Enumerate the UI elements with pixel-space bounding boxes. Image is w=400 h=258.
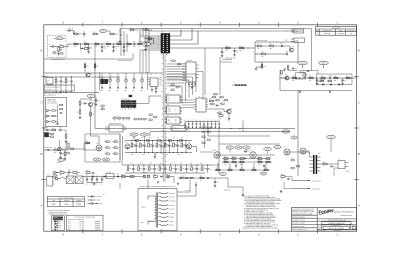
svg-text:22U: 22U: [133, 46, 135, 48]
input box interior parts: [53, 52, 56, 53]
ground C8: [234, 54, 236, 55]
wire C1: [67, 30, 70, 32]
svg-text:R88: R88: [291, 158, 293, 160]
svg-text:ASSY 0077076000: ASSY 0077076000: [47, 102, 57, 104]
component R60: [170, 167, 172, 171]
svg-text:R17: R17: [257, 43, 260, 45]
oval stub wires: [54, 37, 56, 39]
resistor R3: [60, 46, 64, 48]
component C39: [175, 165, 177, 168]
svg-text:PHONES: PHONES: [321, 63, 327, 65]
vertical ribbon bus: [162, 55, 164, 182]
svg-text:MAIN SPK OUT: MAIN SPK OUT: [312, 180, 321, 182]
node C: [113, 43, 114, 44]
component C35: [132, 165, 134, 168]
capacitor C29: [199, 122, 201, 124]
svg-text:LINE: LINE: [52, 200, 55, 202]
svg-text:JD: JD: [350, 33, 352, 35]
ps rail: [83, 176, 135, 178]
svg-text:RETURN: RETURN: [64, 204, 69, 206]
resistor R35: [90, 112, 92, 116]
svg-text:AC LINE WIRING TABLE: AC LINE WIRING TABLE: [58, 198, 73, 200]
node B: [101, 43, 102, 44]
svg-text:U6: U6: [167, 115, 169, 117]
svg-text:D3: D3: [281, 43, 283, 45]
svg-text:R25: R25: [292, 75, 295, 77]
resistor R29: [346, 77, 350, 79]
svg-text:R59: R59: [161, 168, 164, 170]
svg-text:R75: R75: [258, 156, 261, 158]
pa wires: [220, 154, 250, 156]
cluster parts right of pot: [66, 144, 69, 146]
svg-text:OUT: OUT: [318, 153, 321, 155]
diode D13: [104, 176, 106, 178]
svg-text:SCHEMATIC SUBJECT TO CHANGE WI: SCHEMATIC SUBJECT TO CHANGE WITHOUT NOTI…: [242, 228, 278, 230]
capacitor C28: [195, 122, 197, 124]
capacitor C8: [234, 48, 236, 51]
capacitor C4: [113, 44, 115, 47]
wire P1 right side: [170, 35, 181, 37]
T2 primary stubs: [310, 156, 314, 158]
transformer T1 primary leads: [148, 196, 155, 200]
pot MID: [125, 79, 128, 82]
wire vertical riser left of P1: [142, 29, 144, 37]
component R58: [148, 167, 150, 171]
panel gnd: [57, 122, 59, 123]
transformer T1 secondary taps: [159, 192, 177, 226]
part C42: [114, 147, 117, 149]
pot BASS: [117, 79, 120, 82]
node D: [123, 43, 124, 44]
panel jack 2: [46, 115, 48, 117]
loop resistors: [320, 80, 324, 82]
inductor FB1 dark block: [101, 79, 104, 84]
aux input jack J3: [44, 149, 48, 151]
svg-text:470: 470: [258, 164, 260, 166]
resistor R52: [148, 143, 150, 147]
mute oval: [99, 30, 106, 33]
ext spkr arrow: [292, 188, 310, 190]
thermistor RT1: [166, 176, 170, 178]
op-amp U7: [196, 98, 206, 112]
svg-text:R18: R18: [269, 43, 272, 45]
wire switch area vertical 1: [204, 48, 206, 95]
svg-text:R16: R16: [239, 45, 242, 47]
svg-text:REV A SEE NOTE 13: REV A SEE NOTE 13: [44, 95, 56, 97]
power switch S1: [60, 177, 64, 179]
svg-text:AGND: AGND: [168, 111, 171, 113]
ps chain to xfmr: [135, 176, 143, 178]
wire right bus drop: [311, 29, 313, 71]
terminal strip stubs: [46, 91, 48, 93]
svg-text:C: C: [40, 100, 42, 104]
gnd spkr: [280, 190, 282, 191]
svg-text:REV: REV: [353, 225, 355, 227]
resistor R64: [86, 142, 90, 144]
svg-text:18V BRN: 18V BRN: [169, 213, 174, 215]
svg-text:D1: D1: [80, 51, 82, 53]
ground C4: [113, 50, 115, 51]
resistor R5: [85, 43, 89, 45]
wire bus bends into dsp: [167, 74, 196, 92]
svg-text:Scottsdale, AZ USA: Scottsdale, AZ USA: [340, 215, 352, 217]
svg-text:DATE: DATE: [339, 30, 342, 32]
wire v5 to T2: [290, 152, 310, 157]
V2A enclosure box: [85, 134, 120, 162]
svg-text:J3 FOOTSW: J3 FOOTSW: [44, 147, 52, 149]
svg-text:U7: U7: [199, 96, 201, 98]
pa left vertical: [204, 133, 206, 148]
chain2 left entry: [122, 160, 125, 165]
svg-text:10K: 10K: [269, 48, 271, 50]
node Q2: [299, 77, 300, 78]
resistor R6: [95, 43, 99, 45]
svg-text:47U: 47U: [96, 183, 98, 185]
resistor R8: [117, 43, 121, 45]
resistor R95: [52, 129, 56, 131]
regulator U8: [106, 174, 114, 179]
capacitor C32: [156, 143, 158, 147]
node H: [55, 76, 56, 77]
resistor R27: [321, 77, 325, 79]
capacitor C5: [133, 43, 135, 45]
vertical chain x95b: [94, 62, 96, 70]
svg-text:R80: R80: [323, 161, 326, 163]
panel parts: [52, 110, 55, 111]
inlet pins: [53, 177, 55, 179]
svg-text:R7: R7: [106, 41, 108, 43]
component R56: [127, 167, 129, 171]
tap down from node A: [80, 44, 82, 49]
wire ovals bottom: [288, 70, 297, 72]
pot VOL: [101, 79, 104, 82]
svg-text:POWER AMP IN (C): POWER AMP IN (C): [225, 58, 236, 60]
svg-text:SDA: SDA: [183, 75, 186, 77]
transistor Q5: [86, 73, 90, 77]
transistor Q2: [285, 76, 289, 80]
svg-text:ANY REPRODUCTION IS PROHIBITED: ANY REPRODUCTION IS PROHIBITED.: [292, 214, 313, 216]
svg-text:C42: C42: [114, 146, 116, 148]
capacitor C32: [211, 122, 213, 124]
resistor R28: [334, 77, 338, 79]
bridge rectifier D11: [76, 176, 84, 184]
pilot lamp DS1: [143, 175, 146, 178]
main spkr arrow: [292, 180, 310, 182]
svg-text:C41: C41: [106, 146, 108, 148]
svg-text:STBY: STBY: [284, 131, 288, 133]
svg-text:R76: R76: [258, 159, 261, 161]
pa dots: [230, 128, 231, 129]
IC U2 codec: [186, 62, 196, 82]
capacitor C34: [177, 141, 179, 145]
ps verticals: [147, 180, 149, 189]
svg-text:SCALE NONE: SCALE NONE: [318, 230, 326, 232]
svg-text:47P: 47P: [71, 28, 73, 30]
svg-text:10N: 10N: [236, 51, 238, 53]
ground chain: [154, 156, 156, 157]
sheet border: [44, 25, 357, 231]
right upper parts: [130, 29, 134, 31]
svg-text:68K: 68K: [74, 46, 76, 48]
wire to switch circuit: [198, 47, 255, 49]
svg-text:R19: R19: [261, 51, 264, 53]
svg-text:LINE IN / FOOT: LINE IN / FOOT: [47, 99, 56, 101]
spkr out parts: [281, 176, 285, 178]
svg-text:IN: IN: [47, 82, 48, 84]
svg-text:15-SEP-06: 15-SEP-06: [337, 33, 344, 35]
svg-text:DESCRIPTION: DESCRIPTION: [323, 30, 332, 32]
svg-text:DRAWN B. JOHNSON: DRAWN B. JOHNSON: [292, 216, 305, 218]
tube V2A: [96, 145, 102, 151]
part C41: [106, 147, 109, 149]
svg-text:U3: U3: [151, 74, 153, 76]
tube V1B: [186, 144, 191, 149]
svg-text:C15: C15: [62, 81, 65, 83]
svg-text:R21: R21: [284, 68, 287, 70]
diode D1: [81, 48, 83, 50]
svg-text:MUTE SW: MUTE SW: [173, 127, 179, 129]
svg-text:DVM INPUT Z 10 MEG OHM: DVM INPUT Z 10 MEG OHM: [68, 219, 84, 221]
ground U1A: [146, 44, 148, 46]
preamp ovals: [130, 133, 138, 136]
part R65: [106, 141, 109, 143]
svg-text:CHASSIS HARNESS CN3: CHASSIS HARNESS CN3: [45, 86, 60, 88]
svg-text:A: A: [358, 204, 360, 208]
capacitor C34: [218, 122, 220, 124]
svg-text:PEDAL: PEDAL: [57, 162, 61, 164]
wire gain pot: [90, 98, 92, 101]
component R57: [138, 167, 140, 171]
ground return: [299, 91, 301, 92]
resistor R19: [262, 53, 266, 55]
svg-text:NEUTRAL: NEUTRAL: [64, 200, 70, 202]
svg-text:R69: R69: [60, 170, 63, 172]
wire u7 to q4: [208, 109, 228, 112]
svg-text:330V RED: 330V RED: [169, 193, 175, 195]
right nested loop: [317, 74, 353, 85]
resistor R30: [55, 77, 57, 79]
svg-text:RES: RES: [59, 221, 62, 223]
svg-text:Q2: Q2: [285, 74, 287, 76]
svg-text:VREF: VREF: [276, 147, 280, 149]
revision table: [316, 27, 357, 36]
svg-text:V1A: V1A: [125, 142, 128, 144]
svg-text:TUBE: TUBE: [59, 225, 62, 227]
bracket bottom wire: [44, 58, 133, 60]
svg-text:C20: C20: [218, 105, 221, 107]
panel parts right: [60, 104, 63, 105]
svg-text:SWITCH PANEL: SWITCH PANEL: [47, 101, 56, 103]
svg-text:R35: R35: [92, 114, 95, 116]
terminal strip box: [44, 85, 74, 91]
pa left wire: [200, 151, 213, 153]
svg-text:V1B: V1B: [188, 142, 191, 144]
capacitor C25: [184, 122, 186, 124]
svg-text:GND: GND: [53, 229, 56, 231]
bridge rectifier D10: [67, 176, 75, 184]
legend box: [52, 216, 65, 232]
svg-text:FOOTSWITCH BUF: FOOTSWITCH BUF: [110, 123, 121, 125]
svg-text:HTR . . . . . . . . . . . .: HTR . . . . . . . . . . . . 6.3 VAC: [68, 227, 84, 229]
svg-text:QUICK Y: QUICK Y: [97, 200, 102, 202]
svg-text:B+ 1 . . . . . . . . . . . .: B+ 1 . . . . . . . . . . . . 360 VDC: [68, 221, 84, 223]
pot circle X: [58, 147, 61, 150]
input panel box: [46, 98, 67, 127]
wire v6 to T2: [306, 150, 310, 152]
svg-text:R28: R28: [334, 75, 337, 77]
svg-text:CLK: CLK: [183, 78, 186, 80]
heater wires: [177, 180, 190, 192]
svg-text:R73: R73: [224, 159, 227, 161]
cluster footswitch logic: [109, 125, 123, 132]
svg-text:C18: C18: [97, 100, 100, 102]
long top bus wire 1: [120, 28, 312, 30]
svg-text:C60: C60: [216, 182, 219, 184]
svg-text:DIO: DIO: [59, 227, 61, 229]
capacitor C2: [88, 44, 90, 48]
wires inside relay box: [255, 45, 258, 47]
svg-text:R31: R31: [67, 80, 70, 82]
svg-text:R8: R8: [117, 41, 119, 43]
svg-text:V4 6V6: V4 6V6: [249, 149, 253, 151]
wire xfmr sec to rect: [119, 183, 121, 189]
crystal Y1 dark block: [129, 95, 132, 97]
resistor R40: [210, 100, 214, 102]
svg-text:B+ 2 . . . . . . . . . . . .: B+ 2 . . . . . . . . . . . . 340 VDC: [68, 223, 84, 225]
wires dsp to u7: [182, 99, 194, 101]
left low verticals: [119, 134, 121, 160]
svg-text:R15: R15: [225, 45, 228, 47]
svg-text:J7 AUX: J7 AUX: [44, 127, 48, 129]
wiring symbols beside table: [88, 194, 105, 205]
svg-text:R710: R710: [252, 167, 255, 169]
svg-text:100: 100: [281, 178, 283, 180]
svg-text:9V ORG: 9V ORG: [169, 221, 174, 223]
svg-text:47: 47: [323, 166, 325, 168]
resistor R71: [224, 158, 228, 160]
wire top left drop: [119, 29, 121, 34]
resistor R51: [140, 143, 142, 147]
ground C3: [101, 50, 103, 51]
svg-text:ON: ON: [293, 137, 295, 139]
capacitor C30: [135, 141, 137, 145]
U3 bottom parts: [151, 86, 153, 89]
svg-text:47K: 47K: [261, 56, 263, 58]
resistor R57a: [181, 143, 183, 147]
svg-text:MUTE: MUTE: [101, 31, 105, 33]
U1A feedback wire: [145, 39, 154, 45]
svg-text:1 2 3 4 5 6 7 8: 1 2 3 4 5 6 7 8: [45, 89, 53, 91]
svg-text:EXT SPK OUT: EXT SPK OUT: [312, 188, 320, 190]
svg-text:100: 100: [153, 178, 155, 180]
capacitor C33: [164, 143, 166, 147]
component C36: [143, 165, 145, 168]
resistor R7: [107, 43, 111, 45]
svg-text:10K: 10K: [116, 90, 118, 92]
resistor R73: [224, 161, 228, 163]
capacitor C15b: [71, 77, 73, 81]
panel jack 3: [46, 121, 48, 123]
svg-text:R63a: R63a: [203, 168, 206, 170]
tube V4: [250, 152, 256, 158]
svg-text:GROUND: GROUND: [76, 200, 81, 202]
resistor pa: [266, 158, 270, 160]
wire u2 right down: [199, 71, 203, 100]
svg-text:6.3V HTR: 6.3V HTR: [185, 190, 190, 192]
svg-text:47K: 47K: [239, 50, 241, 52]
svg-text:CHECKED T. NGUYEN: CHECKED T. NGUYEN: [292, 220, 305, 222]
pa t2 side parts: [291, 160, 294, 161]
svg-text:R70: R70: [86, 170, 89, 172]
svg-text:XTAL: XTAL: [168, 122, 171, 124]
svg-text:1M: 1M: [60, 50, 62, 52]
parts under2: [86, 172, 90, 174]
resistor R34: [79, 110, 81, 114]
input jack J1: [50, 46, 53, 48]
svg-text:MFG APPR D. SMITH: MFG APPR D. SMITH: [292, 226, 304, 228]
svg-text:10K: 10K: [132, 90, 134, 92]
svg-text:120VAC: 120VAC: [141, 207, 146, 209]
svg-text:120VAC 50/60Hz POWER TRANSFOR: 120VAC 50/60Hz POWER TRANSFORMER P/N 006…: [140, 186, 176, 188]
phones oval label: [319, 61, 329, 65]
bus right small parts: [171, 84, 174, 85]
svg-text:D12: D12: [117, 174, 120, 176]
capacitor C15: [60, 77, 62, 81]
svg-text:47U: 47U: [101, 183, 103, 185]
resistor R9c: [138, 43, 142, 45]
footswitch oval: [58, 159, 64, 162]
resistor R17: [258, 45, 262, 47]
svg-text:C: C: [358, 100, 360, 104]
svg-text:R90 R91: R90 R91: [202, 125, 207, 127]
wires from ovals: [302, 65, 304, 68]
svg-text:INPUT: INPUT: [57, 38, 61, 40]
svg-text:R85: R85: [121, 174, 124, 176]
svg-text:4K7: 4K7: [309, 80, 312, 82]
svg-text:PRES: PRES: [104, 159, 108, 161]
svg-text:R62a: R62a: [193, 168, 196, 170]
svg-text:LEVEL: LEVEL: [301, 71, 305, 73]
svg-text:SHEET 1 OF 1: SHEET 1 OF 1: [334, 230, 342, 232]
svg-text:C50: C50: [333, 166, 336, 168]
svg-text:C14: C14: [344, 80, 347, 82]
svg-text:C36: C36: [145, 168, 148, 170]
svg-text:BIAS . . . . . . . . . . . . -: BIAS . . . . . . . . . . . . -12 VDC: [68, 229, 84, 231]
resistor pa: [240, 158, 244, 160]
svg-text:R711: R711: [264, 167, 267, 169]
svg-text:GAIN: GAIN: [89, 96, 92, 98]
node F: [247, 47, 248, 48]
svg-text:LEGEND: LEGEND: [53, 217, 58, 219]
svg-text:SCL: SCL: [183, 72, 186, 74]
capacitor C9: [286, 53, 288, 55]
wire dsp blocks to bus: [136, 103, 149, 105]
resistor R25: [293, 77, 297, 79]
svg-text:47K: 47K: [117, 46, 119, 48]
chain2 to pi wire: [213, 164, 219, 166]
svg-text:R27: R27: [321, 75, 324, 77]
AC line wiring table: [47, 197, 84, 207]
svg-text:R64: R64: [86, 140, 89, 142]
footswitch jack J7 cluster: [44, 129, 47, 131]
wire ovals to chain: [133, 136, 135, 140]
rail above caps: [185, 121, 219, 123]
parts row mid: [134, 119, 137, 120]
ground C18: [95, 103, 97, 104]
resistor R18: [270, 45, 274, 47]
resistor R2: [58, 48, 60, 52]
svg-text:R40: R40: [209, 98, 212, 100]
